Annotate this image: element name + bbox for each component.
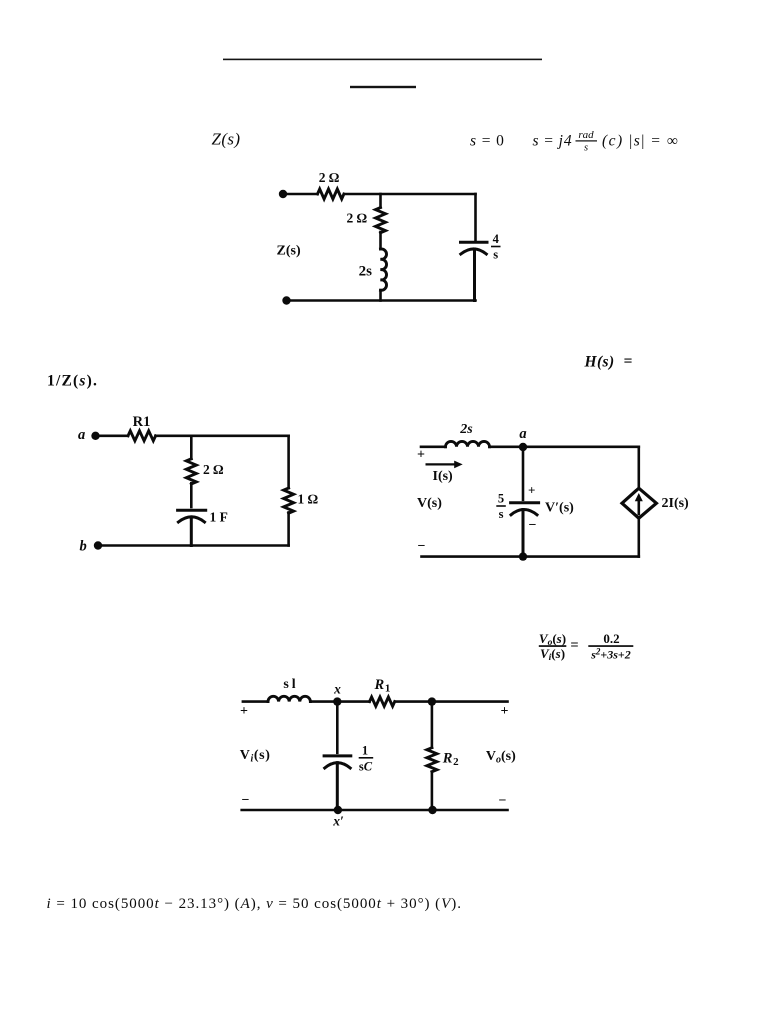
svg-text:2I(s): 2I(s) (662, 496, 690, 511)
node dot bottom (519, 552, 527, 560)
wire top-right (490, 445, 639, 448)
svg-text:s: s (584, 143, 588, 154)
resistor R1 (128, 431, 156, 441)
current arrow I(s) (427, 463, 456, 465)
svg-text:1 F: 1 F (210, 510, 228, 525)
wire top-left (243, 700, 268, 703)
svg-text:s = j4: s = j4 (533, 133, 573, 150)
wire top-left (421, 445, 446, 448)
svg-text:1: 1 (362, 744, 368, 758)
wire from a (96, 434, 129, 437)
terminal dot a (91, 432, 99, 440)
svg-text:1 Ω: 1 Ω (298, 492, 319, 507)
svg-text:sC: sC (359, 760, 373, 774)
svg-text:2s: 2s (359, 264, 373, 280)
svg-text:−: − (499, 794, 507, 809)
wire right branch upper (287, 436, 290, 488)
svg-text:a: a (78, 427, 85, 443)
svg-text:=: = (624, 353, 633, 370)
rule line top (223, 59, 542, 61)
resistor 2ohm vertical (376, 208, 386, 233)
wire top-left (283, 193, 318, 196)
wire right branch upper (637, 447, 640, 488)
svg-text:4: 4 (493, 232, 500, 246)
svg-text:I(s): I(s) (433, 469, 454, 484)
capacitor 1F (178, 510, 206, 545)
wire right branch lower (287, 512, 290, 545)
svg-text:Z(s): Z(s) (212, 129, 241, 148)
svg-text:+: + (528, 483, 535, 498)
wire to node x (310, 700, 369, 703)
svg-text:1/Z(s).: 1/Z(s). (47, 373, 98, 390)
svg-text:−: − (242, 793, 250, 808)
wire top-right (395, 700, 508, 703)
wire bottom (287, 299, 476, 302)
terminal dot top-left (279, 190, 287, 198)
svg-text:−: − (418, 539, 426, 554)
terminal dot bottom-left (282, 296, 290, 304)
svg-text:s: s (493, 248, 498, 262)
svg-text:R2: R2 (442, 751, 459, 769)
capacitor 4/s (461, 242, 488, 300)
svg-text:2 Ω: 2 Ω (347, 211, 368, 226)
svg-text:5: 5 (498, 492, 504, 506)
svg-text:=: = (570, 638, 578, 654)
svg-text:(c) |s| = ∞: (c) |s| = ∞ (602, 133, 679, 150)
wire bottom (242, 809, 508, 812)
wire R2 branch upper (431, 702, 434, 748)
svg-text:Vo(s): Vo(s) (486, 749, 516, 766)
svg-text:2 Ω: 2 Ω (319, 170, 340, 185)
node x dot (333, 697, 341, 705)
node a dot (519, 443, 527, 451)
svg-text:x′: x′ (332, 814, 344, 829)
resistor R2 vertical (427, 748, 437, 772)
node dot right (428, 697, 436, 705)
svg-text:V(s): V(s) (417, 496, 442, 511)
svg-text:+: + (417, 448, 425, 463)
wire R2 branch lower (431, 772, 434, 810)
svg-text:Vi(s): Vi(s) (240, 748, 271, 765)
inductor 2s horizontal (446, 441, 490, 446)
svg-text:Vi(s): Vi(s) (540, 646, 565, 663)
svg-text:+: + (240, 704, 248, 719)
svg-text:rad: rad (578, 129, 594, 141)
equation Vo(s)/Vi(s) = 0.2/(s^2+3s+2) (539, 631, 634, 663)
wire middle (190, 483, 193, 507)
svg-text:a: a (519, 426, 526, 442)
svg-text:R1: R1 (133, 414, 151, 430)
wire top-right (344, 193, 476, 196)
svg-text:sl: sl (283, 677, 298, 692)
wire middle branch top (379, 194, 382, 208)
node dot bottom x' (334, 806, 342, 814)
svg-text:2 Ω: 2 Ω (203, 462, 224, 477)
resistor 2ohm vertical (186, 459, 196, 484)
arrow inside diamond (637, 499, 640, 514)
inductor 2s vertical (381, 249, 387, 290)
wire middle branch top (190, 436, 193, 459)
svg-text:b: b (80, 539, 87, 555)
capacitor 1/sC (324, 756, 351, 810)
resistor R1 (370, 697, 395, 706)
svg-text:H(s): H(s) (584, 354, 615, 371)
dependent source diamond 2I(s) (622, 488, 656, 518)
wire capacitor branch upper (336, 702, 339, 753)
svg-text:x: x (333, 682, 341, 697)
resistor 1ohm vertical (284, 488, 294, 513)
svg-text:s2+3s+2: s2+3s+2 (590, 646, 631, 661)
wire middle branch upper (522, 447, 525, 500)
wire middle branch bottom (379, 290, 382, 300)
node dot bottom right (428, 806, 436, 814)
wire middle (379, 232, 382, 249)
svg-text:+: + (501, 704, 509, 719)
svg-text:i = 10 cos(5000t − 23.13°) (A: i = 10 cos(5000t − 23.13°) (A), v = 50 c… (47, 896, 462, 912)
wire bottom (98, 544, 289, 547)
svg-text:R1: R1 (374, 677, 391, 695)
inductor sL (268, 696, 310, 701)
svg-text:−: − (529, 518, 537, 533)
wire right branch lower (637, 518, 640, 556)
wire right branch upper (474, 194, 477, 242)
resistor 2ohm horizontal (318, 189, 344, 199)
wire top (156, 434, 289, 437)
svg-text:2s: 2s (459, 422, 473, 437)
wire bottom (422, 555, 639, 558)
capacitor 5/s (511, 503, 539, 557)
svg-text:0.2: 0.2 (603, 631, 619, 646)
terminal dot b (94, 541, 102, 549)
svg-text:V′(s): V′(s) (545, 501, 574, 516)
rule line short (350, 86, 416, 88)
svg-text:Z(s): Z(s) (277, 244, 301, 259)
svg-text:s: s (499, 507, 504, 521)
svg-text:s = 0: s = 0 (470, 133, 505, 150)
